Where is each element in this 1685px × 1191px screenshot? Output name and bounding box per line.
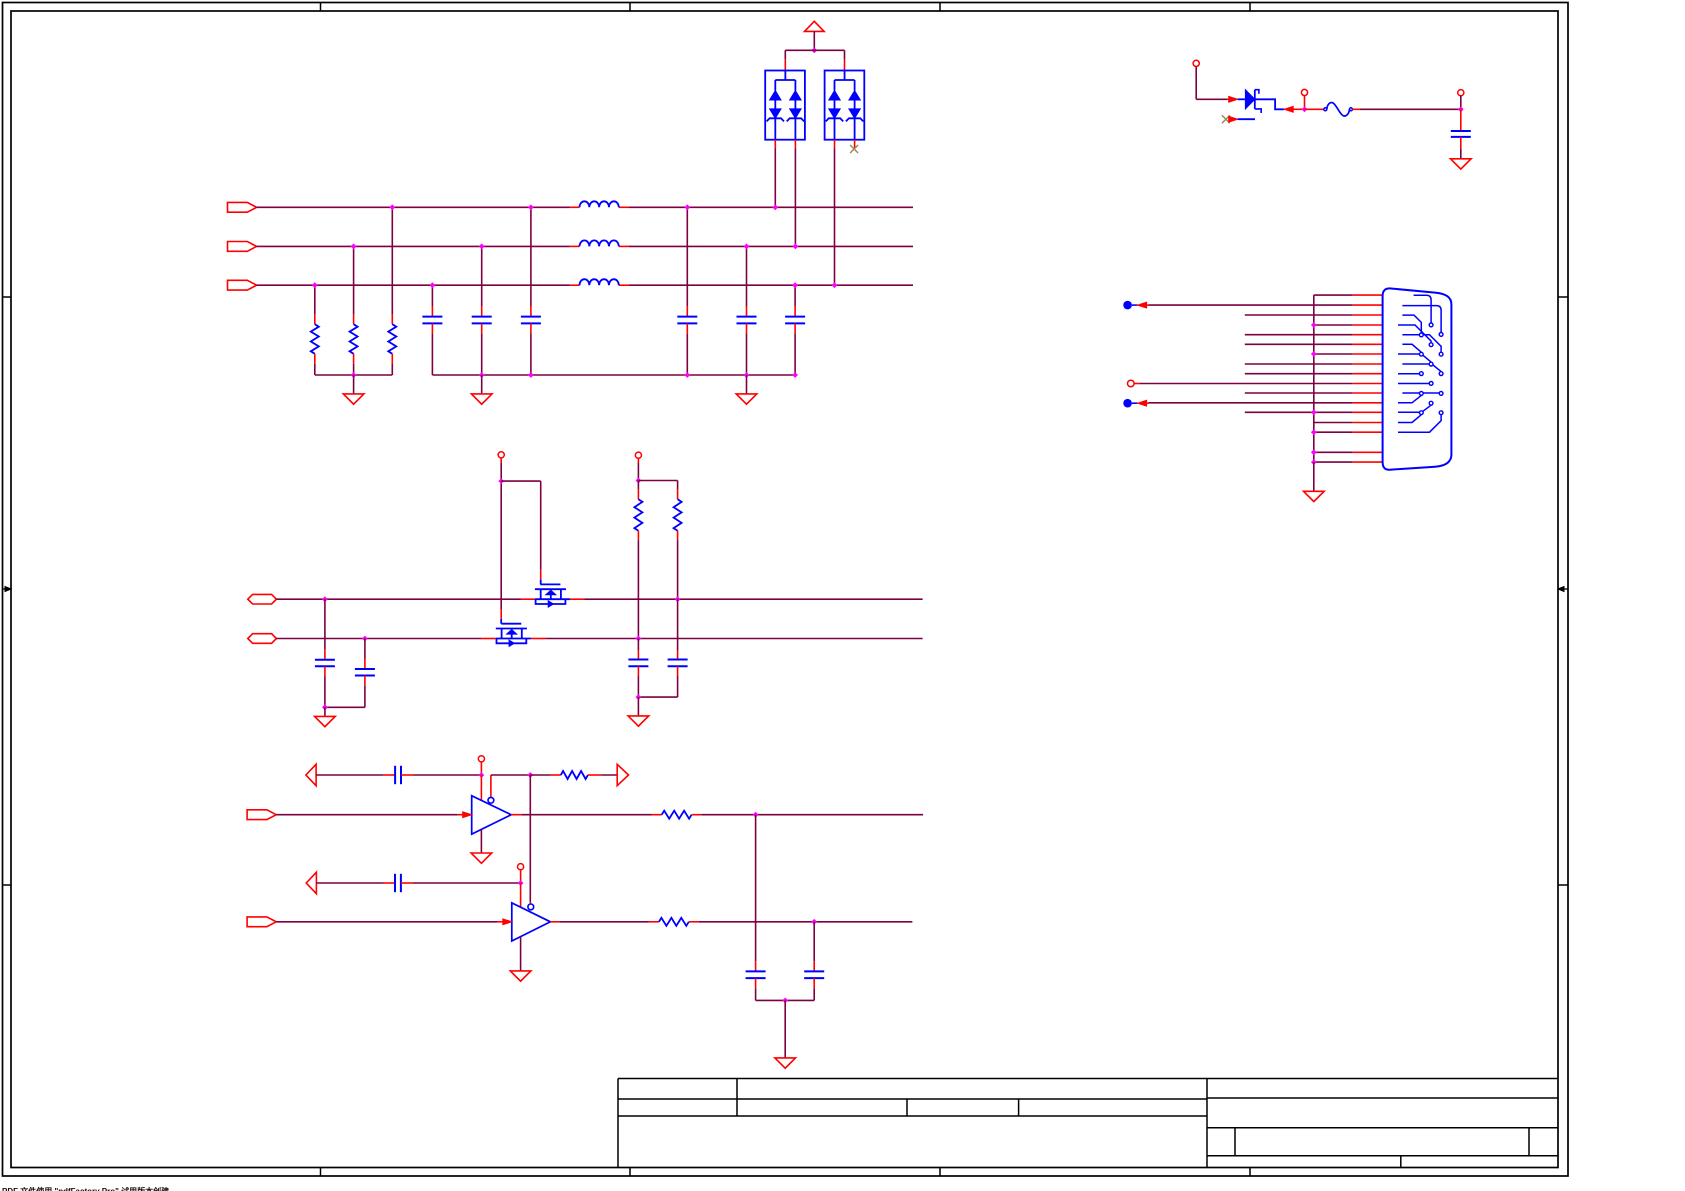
wire D1 anode stub — [1238, 98, 1246, 100]
U2 inverting bubble — [528, 904, 534, 910]
wire P15 to C12 — [316, 882, 394, 884]
wire U1 bubble stub — [490, 775, 492, 797]
node TVS1-line1 junction — [772, 204, 778, 210]
border centering arrow left — [3, 587, 12, 592]
ground G3 — [736, 394, 757, 404]
wire arrow to node — [1293, 108, 1304, 110]
port P14 (signal in 1) — [247, 810, 276, 820]
wire C7 bottom — [1460, 137, 1462, 159]
wire C15 bottom — [637, 666, 639, 697]
op-amp U2 (buffer) — [512, 903, 551, 941]
diode D1 (TVS) — [1245, 90, 1261, 113]
pin terminal P12 — [478, 756, 484, 762]
port P13 (series out) — [617, 764, 628, 785]
wire R4 top — [637, 481, 639, 500]
wire D1 cathode jog — [1255, 99, 1284, 109]
wire lineA left — [276, 598, 520, 600]
connector J1 pin artwork — [1398, 295, 1443, 432]
wire R6 to P13 — [588, 774, 617, 776]
wire J1 pin14 row — [1314, 422, 1383, 424]
op-amp U1 (buffer) — [472, 796, 512, 834]
node C6 common junction — [792, 372, 798, 378]
node U2 enable junction — [518, 880, 524, 886]
port P3 (phase C input) — [228, 280, 257, 290]
node TVS1-line2 junction — [793, 244, 799, 250]
node line3-R1 junction — [312, 282, 318, 288]
wire J1 pin13 row — [1245, 411, 1383, 413]
wire C14 bottom — [813, 978, 815, 1000]
wire C5 tap — [746, 246, 748, 316]
U1 inverting bubble — [488, 797, 494, 803]
wire J1 pin10 row — [1134, 383, 1383, 385]
node gate net junction — [498, 478, 504, 484]
wire J1 pin7 row — [1314, 353, 1383, 355]
wire C10 top — [364, 639, 366, 670]
wire R7 to end — [692, 814, 924, 816]
wire J1 pin5 row — [1245, 334, 1383, 336]
wire R5 top — [677, 481, 679, 500]
ground G6 — [628, 716, 649, 726]
wire C9 top — [324, 599, 326, 660]
wire bubble net — [491, 774, 530, 776]
wire U2 output — [559, 921, 659, 923]
port P17 (signal in 2) — [247, 917, 276, 927]
wire P6 stub — [1460, 96, 1462, 110]
node C9-C10 common junction — [322, 704, 328, 710]
pin terminal P16 — [518, 864, 524, 870]
wire TVS2 pin stub — [844, 60, 846, 71]
node VCC junction — [811, 47, 817, 53]
title block table — [618, 1079, 1558, 1168]
transistor Q1 — [535, 584, 570, 607]
node C5 common junction — [744, 372, 750, 378]
wire lineB right — [545, 638, 922, 640]
wire C5 bottom — [746, 323, 748, 375]
fuse F1 — [1324, 103, 1353, 116]
wire ground stub G2 — [481, 375, 483, 394]
ground G7 — [471, 853, 492, 863]
no-connect pin of D1 — [1222, 115, 1231, 123]
node pullup junction — [636, 478, 642, 484]
node U1 enable junction — [479, 772, 485, 778]
wire line3 right — [629, 284, 913, 286]
node bus pin17 junction — [1311, 459, 1317, 465]
resistor R8 — [659, 918, 689, 926]
node lineA-C9 junction — [322, 596, 328, 602]
wire P17 to U2 — [276, 921, 503, 923]
node R5-lineA junction — [675, 596, 681, 602]
wire C12 to node — [401, 882, 521, 884]
port P8 (line B) — [248, 634, 277, 644]
wire C11 to node — [401, 774, 481, 776]
wire line2 inductor stubs — [570, 245, 629, 247]
wire C2 bottom — [481, 323, 483, 375]
capacitor C9 — [315, 660, 335, 667]
wire TVS1 left leg — [774, 140, 776, 208]
ground G10 — [1304, 491, 1325, 501]
node C3 common junction — [528, 372, 534, 378]
TVS array D3 — [825, 71, 865, 140]
wire ground stub G9 — [784, 1000, 786, 1057]
wire C10 bottom — [325, 676, 365, 708]
wire J1 pin2 row — [1147, 304, 1383, 306]
pin arrow T1 — [1138, 302, 1147, 308]
inductor L2 — [580, 240, 619, 246]
node line2-C2 junction — [479, 244, 485, 250]
wire P11 to C11 — [316, 774, 395, 776]
wire R3 tap — [391, 207, 393, 324]
capacitor C5 — [737, 317, 757, 324]
wire P14 to U1 — [276, 814, 463, 816]
node C4 common junction — [684, 372, 690, 378]
wire R2 bottom — [353, 354, 355, 375]
pin arrow out of D1 — [1284, 106, 1293, 112]
wire capacitor common — [432, 374, 795, 376]
wire resistor common — [315, 374, 393, 376]
wire to R6 — [530, 774, 561, 776]
wire U1 ground stub — [480, 830, 482, 853]
resistor R5 — [674, 499, 682, 530]
wire C14 top — [813, 922, 815, 972]
wire line3 inductor stubs — [570, 284, 629, 286]
wire C4 bottom — [686, 323, 688, 375]
no-connect mark TVS2 — [850, 145, 858, 153]
inductor L3 — [580, 279, 619, 285]
node R4-lineB junction — [636, 636, 642, 642]
wire line1 right — [629, 206, 913, 208]
node lineB-C10 junction — [362, 636, 368, 642]
wire R3 bottom — [391, 354, 393, 375]
wire C3 bottom — [530, 323, 532, 375]
wire R4 bottom — [637, 531, 639, 639]
wire J1 pin11 row — [1245, 392, 1383, 394]
wire C1 bottom — [431, 323, 433, 375]
wire C9 bottom — [324, 666, 326, 707]
pin terminal P6 — [1458, 90, 1464, 96]
capacitor C7 — [1451, 131, 1471, 137]
wire ground stub G10 — [1313, 462, 1315, 491]
wire U1 enable entry — [480, 775, 482, 800]
node bus pin15 junction — [1311, 429, 1317, 435]
node line3-C1 junction — [430, 282, 436, 288]
wire ground stub G5 — [324, 707, 326, 716]
node bus pin4 junction — [1311, 322, 1317, 328]
capacitor C16 — [668, 660, 688, 667]
capacitor C13 — [746, 971, 766, 978]
wire U1 output stub — [511, 814, 521, 816]
power symbol VCC — [805, 21, 825, 31]
wire J1 pin9 row — [1245, 373, 1383, 375]
wire line2 left — [257, 245, 570, 247]
node C2 common junction — [479, 372, 485, 378]
wire R8 to end — [689, 921, 913, 923]
wire connector bus — [1313, 295, 1315, 462]
resistor R7 — [662, 811, 692, 819]
wire P12 stub — [480, 762, 482, 775]
wire Q2 gate lead — [500, 481, 502, 624]
wire VCC stub — [813, 31, 815, 50]
wire line1 left — [257, 206, 570, 208]
wire node to fuse — [1305, 108, 1324, 110]
wire C16 top — [677, 599, 679, 659]
wire TVS top rail — [785, 50, 844, 59]
wire J1 pin12 row — [1147, 402, 1383, 404]
wire P10 stub — [637, 458, 639, 480]
wire gate net branch — [501, 480, 541, 482]
ground G8 — [510, 971, 531, 981]
wire line3 left — [257, 284, 570, 286]
wire P9 stub — [500, 458, 502, 481]
wire pullup branch — [638, 480, 677, 482]
resistor R6 — [561, 771, 588, 779]
ground G1 — [343, 394, 364, 404]
ground G4 — [1451, 159, 1472, 169]
connector J1 body — [1383, 288, 1452, 469]
wire ground stub G6 — [637, 697, 639, 715]
watermark text — [2, 1186, 170, 1191]
port P2 (phase B input) — [228, 242, 257, 252]
pin terminal P10 (pullup supply) — [635, 452, 641, 458]
wire ground stub G1 — [353, 375, 355, 394]
wire P5 stub — [1304, 96, 1306, 110]
wire C2 tap — [481, 246, 483, 316]
wire P4 to diode — [1196, 67, 1229, 100]
wire U2 ground stub — [520, 937, 522, 971]
wire J1 pin4 row — [1314, 324, 1383, 326]
node output2 junction — [811, 919, 817, 925]
wire C13-C14 common — [756, 999, 815, 1001]
node output1 junction — [753, 812, 759, 818]
inductor L1 — [580, 201, 619, 207]
capacitor C3 — [521, 317, 541, 324]
wire J1 pin6 row — [1245, 343, 1383, 345]
wire C13 bottom — [755, 978, 757, 1000]
wire line1 inductor stubs — [570, 206, 629, 208]
pin arrow into D1 — [1229, 96, 1238, 102]
node C13-C14 junction — [782, 998, 788, 1004]
wire lineB M2 stubs — [481, 638, 545, 640]
node TVS2-line3 junction — [832, 282, 838, 288]
node D1-fuse junction — [1302, 106, 1308, 112]
TVS array D2 — [765, 71, 805, 140]
pin terminal P4 — [1193, 60, 1199, 66]
capacitor C11 — [395, 766, 401, 784]
ground G9 — [775, 1058, 796, 1068]
transistor Q2 — [496, 624, 531, 647]
wire J1 pin15 row — [1314, 431, 1383, 433]
wire J1 pin3 row — [1245, 314, 1383, 316]
pin arrow U2 input — [503, 919, 512, 925]
capacitor C14 — [804, 971, 824, 978]
port P15 (feedback out 2) — [306, 872, 316, 893]
port P1 (phase A input) — [228, 202, 257, 212]
wire lineA right — [585, 598, 923, 600]
wire R2 tap — [353, 246, 355, 324]
wire lineB left — [276, 638, 481, 640]
wire P16 stub — [520, 870, 522, 883]
node bus pin16 junction — [1311, 449, 1317, 455]
border centering arrow right — [1558, 587, 1568, 592]
terminal T1 (blue) — [1123, 301, 1137, 310]
node resistor common junction — [351, 372, 357, 378]
capacitor C2 — [472, 317, 492, 324]
node cap C7 junction — [1458, 106, 1464, 112]
wire TVS1 right leg — [794, 140, 796, 247]
wire R1 tap — [314, 285, 316, 324]
wire R1 bottom — [314, 354, 316, 375]
wire J1 pin8 row — [1245, 363, 1383, 365]
node bus pin13 junction — [1311, 409, 1317, 415]
node line3-C6 junction — [792, 282, 798, 288]
node line1-C4 junction — [684, 204, 690, 210]
node bubble net junction — [527, 772, 533, 778]
wire C6 tap — [794, 285, 796, 316]
wire Q1 gate lead — [540, 481, 542, 584]
resistor R1 — [311, 324, 319, 354]
wire C16 bottom — [638, 666, 677, 697]
wire C6 bottom — [794, 323, 796, 375]
wire U2 output stub — [550, 921, 559, 923]
port P11 (feedback out 1) — [306, 764, 316, 785]
pin terminal P9 (gate supply) — [498, 452, 504, 458]
ground G2 — [471, 394, 492, 404]
wire TVS2 left leg — [834, 140, 836, 286]
wire U2 enable entry — [520, 883, 522, 908]
pin arrow U1 input — [463, 812, 472, 818]
capacitor C10 — [355, 669, 375, 676]
pin terminal P5 — [1301, 89, 1307, 95]
wire TVS1 pin stub — [784, 60, 786, 71]
wire D1 pin2 stub — [1238, 118, 1255, 120]
node line1-R3 junction — [389, 204, 395, 210]
wire C15 top — [637, 639, 639, 660]
port P7 (line A) — [248, 594, 277, 604]
wire C13 top — [755, 815, 757, 972]
svg-text:PDF 文件使用 "pdfFactory Pro" 试用版本: PDF 文件使用 "pdfFactory Pro" 试用版本创建 — [2, 1186, 170, 1191]
resistor R3 — [388, 324, 396, 354]
wire enable chain vertical — [529, 775, 531, 904]
wire J1 pin1 row — [1314, 294, 1383, 296]
wire C7 top — [1460, 109, 1462, 131]
node line1-C3 junction — [528, 204, 534, 210]
ground G5 — [315, 716, 336, 726]
wire C4 tap — [686, 207, 688, 316]
capacitor C12 — [395, 874, 401, 892]
terminal T3 (blue) — [1123, 399, 1137, 408]
wire ground stub G3 — [746, 375, 748, 394]
terminal T2 (open) — [1128, 380, 1135, 387]
node line2-R2 junction — [351, 244, 357, 250]
wire J1 pin16 row — [1314, 451, 1383, 453]
resistor R4 — [634, 499, 642, 530]
wire C1 tap — [431, 285, 433, 316]
capacitor C1 — [422, 317, 442, 324]
wire line2 right — [629, 245, 913, 247]
wire fuse to cap node — [1352, 108, 1460, 110]
node C15-C16 common junction — [636, 694, 642, 700]
resistor R2 — [350, 324, 358, 354]
wire J1 pin17 row — [1314, 461, 1383, 463]
node bus pin7 junction — [1311, 351, 1317, 357]
pin arrow T3 — [1138, 400, 1147, 406]
wire R5 bottom — [677, 531, 679, 600]
capacitor C15 — [628, 660, 648, 667]
wire C3 tap — [530, 207, 532, 316]
capacitor C6 — [785, 317, 805, 324]
wire TVS2 right leg no-connect — [854, 140, 856, 149]
capacitor C4 — [677, 317, 697, 324]
wire U1 output — [521, 814, 661, 816]
node line2-C5 junction — [744, 244, 750, 250]
wire lineA M1 stubs — [521, 598, 585, 600]
pin arrow D1 pin2 — [1229, 116, 1238, 122]
